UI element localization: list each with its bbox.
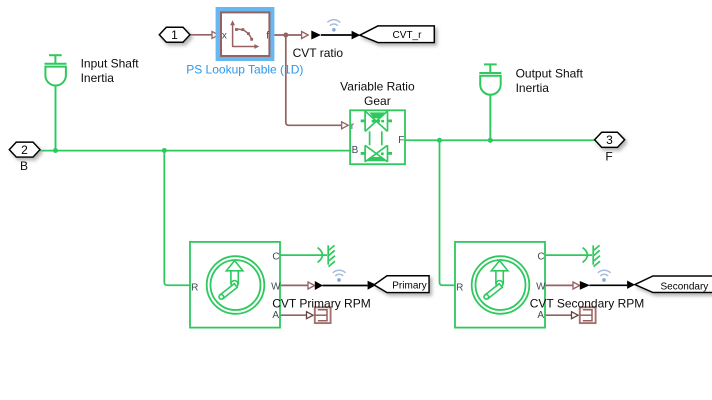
svg-text:CVT Secondary RPM: CVT Secondary RPM xyxy=(530,297,645,311)
svg-text:W: W xyxy=(536,281,546,292)
svg-text:CVT ratio: CVT ratio xyxy=(293,46,344,60)
svg-text:PS Lookup Table (1D): PS Lookup Table (1D) xyxy=(186,62,303,76)
svg-text:A: A xyxy=(537,310,544,321)
svg-text:A: A xyxy=(272,310,279,321)
svg-text:Input Shaft: Input Shaft xyxy=(81,57,140,71)
svg-text:2: 2 xyxy=(21,143,28,157)
svg-text:R: R xyxy=(456,283,463,294)
svg-text:C: C xyxy=(537,251,544,262)
svg-text:F: F xyxy=(605,149,612,163)
svg-text:Variable Ratio: Variable Ratio xyxy=(340,79,415,93)
svg-text:CVT Primary RPM: CVT Primary RPM xyxy=(272,297,370,311)
svg-text:CVT_r: CVT_r xyxy=(393,30,423,41)
svg-text:R: R xyxy=(191,283,198,294)
svg-text:1: 1 xyxy=(171,28,178,42)
svg-text:f: f xyxy=(266,31,269,42)
svg-text:Output Shaft: Output Shaft xyxy=(516,66,584,80)
svg-text:F: F xyxy=(398,135,404,146)
svg-text:3: 3 xyxy=(606,133,613,147)
svg-text:Gear: Gear xyxy=(364,94,391,108)
svg-text:B: B xyxy=(20,159,28,173)
svg-text:C: C xyxy=(272,251,279,262)
svg-text:Inertia: Inertia xyxy=(81,71,115,85)
svg-text:W: W xyxy=(271,281,281,292)
svg-text:B: B xyxy=(352,145,359,156)
svg-text:Secondary: Secondary xyxy=(661,282,709,293)
svg-text:Inertia: Inertia xyxy=(516,81,550,95)
svg-text:x: x xyxy=(222,31,227,42)
svg-text:Primary: Primary xyxy=(392,281,426,292)
